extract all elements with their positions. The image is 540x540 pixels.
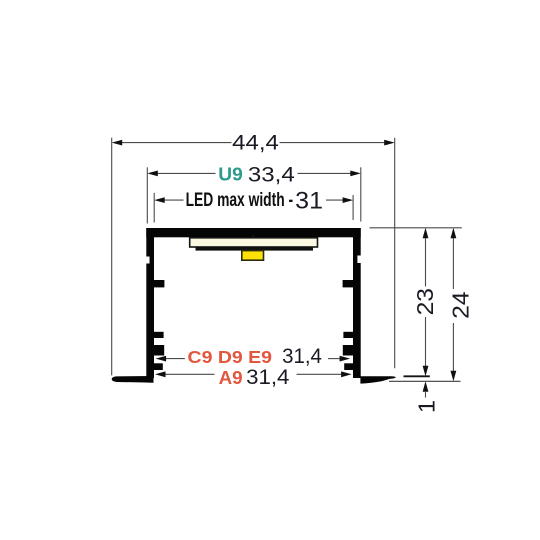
profile left wall	[146, 228, 154, 378]
LED strip PCB	[190, 238, 318, 247]
left wall rib C	[153, 363, 163, 370]
dimension line LED right segment	[326, 199, 344, 201]
svg-text:33,4: 33,4	[248, 163, 295, 186]
arrowhead 23 top	[423, 228, 429, 239]
arrowhead LED left	[154, 197, 165, 203]
svg-text:1: 1	[413, 400, 439, 413]
left spring flange	[112, 376, 154, 383]
left wall rib B	[153, 332, 164, 338]
dimension 1 leader line	[425, 392, 427, 398]
extension line right (33,4)	[360, 167, 362, 221]
C9 row left arrowhead	[156, 356, 167, 362]
C9 row right arrowhead	[340, 356, 351, 362]
arrowhead 33,4 left	[147, 171, 158, 177]
svg-text:U9: U9	[218, 164, 243, 184]
left wall rib A	[153, 280, 164, 287]
svg-text:31,4: 31,4	[246, 366, 290, 389]
C9 row right leader line	[328, 358, 341, 360]
A9 row right leader line	[297, 373, 343, 375]
dimension line 33,4 right segment	[298, 172, 352, 174]
right wall foot block	[343, 345, 354, 356]
dimension line 23 upper segment	[425, 238, 427, 287]
svg-text:LED max width -: LED max width -	[186, 190, 294, 211]
arrowhead 44,4 left	[112, 140, 123, 146]
svg-text:24: 24	[447, 292, 473, 319]
extension line flange bottom level	[389, 380, 461, 382]
left wall outer notch	[146, 257, 150, 264]
extension line left (44,4)	[111, 138, 113, 376]
right wall rib A	[343, 280, 354, 287]
arrowhead 44,4 right	[384, 140, 395, 146]
svg-text:A9: A9	[219, 368, 243, 388]
dimension line LED left segment	[164, 199, 184, 201]
svg-text:44,4: 44,4	[232, 131, 279, 154]
arrowhead LED right	[343, 197, 354, 203]
arrowhead 23 bottom	[423, 366, 429, 377]
svg-text:C9 D9 E9: C9 D9 E9	[188, 347, 273, 367]
C9 row left leader line	[166, 358, 185, 360]
arrowhead 24 bottom	[451, 371, 457, 382]
right wall outer notch	[357, 256, 361, 264]
dimension line 33,4 left segment	[157, 172, 216, 174]
extension line right (44,4)	[394, 138, 396, 368]
extension line right (LED max width)	[352, 195, 354, 220]
svg-text:31,4: 31,4	[282, 345, 322, 368]
right wall rib B	[343, 332, 354, 338]
cap centre mark	[252, 236, 255, 239]
arrowhead 33,4 right	[350, 171, 361, 177]
A9 row right arrowhead	[341, 371, 352, 377]
extension line left (33,4)	[146, 167, 148, 223]
A9 row left leader line	[165, 373, 215, 375]
svg-text:31: 31	[295, 188, 323, 215]
A9 row left arrowhead	[155, 371, 166, 377]
LED strip underside bar	[196, 247, 314, 250]
dimension 1 arrow (up)	[423, 381, 429, 392]
extension line top (23/24)	[370, 227, 462, 229]
dimension line 44,4 right segment	[280, 142, 386, 144]
dimension line 24 upper segment	[452, 238, 454, 290]
svg-text:23: 23	[412, 288, 438, 315]
right wall rib C	[344, 363, 354, 370]
arrowhead 24 top	[451, 228, 457, 239]
left wall foot block	[153, 345, 164, 356]
extension line flange top level	[404, 375, 430, 377]
profile right wall	[353, 228, 361, 378]
profile top cap	[146, 228, 360, 237]
dimension line 44,4 left segment	[121, 142, 232, 144]
right spring flange	[360, 376, 395, 383]
dimension line 24 lower segment	[452, 323, 454, 372]
extension line left (LED max width)	[153, 193, 155, 223]
dimension line 23 lower segment	[425, 317, 427, 367]
LED emitter	[242, 251, 264, 261]
